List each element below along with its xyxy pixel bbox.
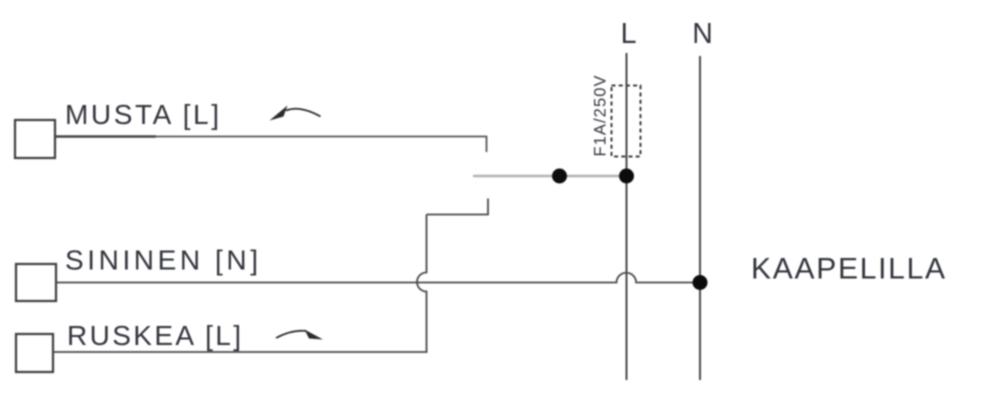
terminal X1 (MUSTA) — [15, 120, 55, 158]
svg-text:L: L — [621, 18, 637, 50]
wire riser RUSKEA to lower contact (hops over SININEN) — [417, 215, 427, 353]
label N — [692, 18, 713, 50]
fuse F1 value label F1A/250V — [592, 76, 610, 157]
switch S1 lower contact stub — [427, 199, 489, 215]
svg-text:MUSTA [L]: MUSTA [L] — [65, 99, 219, 130]
junction dot: SININEN to N rail — [693, 275, 708, 290]
wire RUSKEA (L) from terminal to riser — [53, 351, 428, 353]
label KAAPELILLA — [751, 253, 945, 286]
bus L (phase rail) — [626, 53, 628, 380]
svg-text:F1A/250V: F1A/250V — [592, 76, 610, 157]
terminal X3 (RUSKEA) — [16, 334, 53, 372]
label L — [621, 18, 637, 50]
junction dot: lever to L rail — [619, 169, 634, 184]
label RUSKEA (L) — [67, 320, 241, 351]
label SININEN (N) — [65, 245, 258, 276]
wire SININEN (N) from terminal to N rail (hops over L rail) — [56, 273, 700, 283]
bus N (neutral rail) — [699, 56, 701, 380]
arrow toggle (counter-clockwise, above MUSTA wire) — [270, 106, 321, 121]
svg-text:RUSKEA [L]: RUSKEA [L] — [67, 320, 241, 351]
switch S1 lever (light grey) — [473, 175, 626, 178]
switch S1 pivot dot — [552, 169, 567, 184]
fuse F1 (dashed body on L rail) — [612, 86, 641, 157]
terminal X2 (SININEN) — [16, 264, 56, 301]
svg-text:N: N — [692, 18, 713, 50]
label MUSTA (L) — [65, 99, 219, 130]
svg-text:SININEN [N]: SININEN [N] — [65, 245, 258, 276]
wire MUSTA (L) from terminal to switch upper contact — [55, 137, 487, 153]
arrow toggle (clockwise, above RUSKEA wire) — [276, 330, 323, 340]
svg-text:KAAPELILLA: KAAPELILLA — [751, 253, 945, 286]
